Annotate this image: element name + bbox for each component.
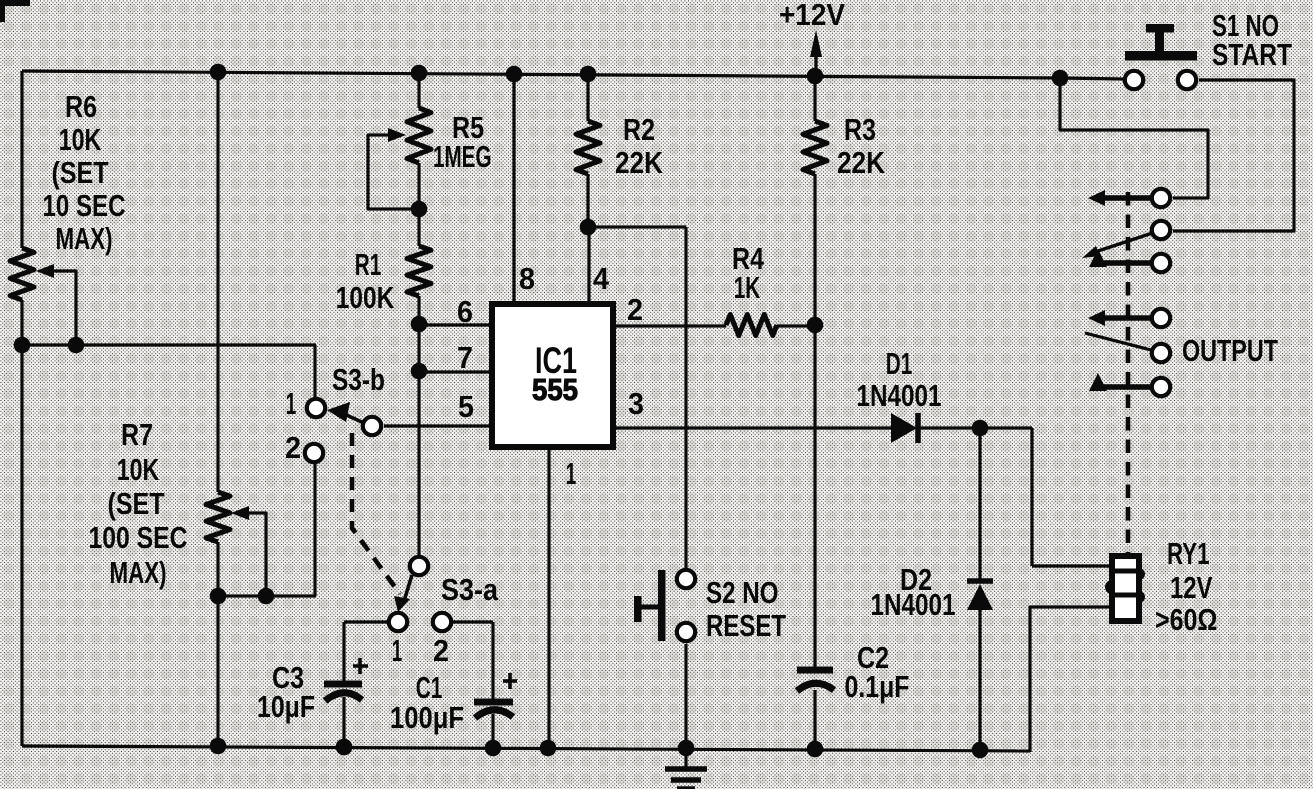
node pin6 junction bbox=[411, 316, 428, 333]
switch S3-b pole bbox=[363, 417, 381, 435]
svg-text:2: 2 bbox=[285, 430, 301, 465]
svg-text:5: 5 bbox=[458, 389, 474, 424]
relay contact row4 bbox=[1088, 309, 1170, 327]
node R6 wiper junction bbox=[68, 337, 85, 354]
label C1 bbox=[390, 670, 464, 735]
wire relay coil bottom return bbox=[1030, 607, 1112, 752]
label S3-b 1 bbox=[286, 386, 297, 421]
label S3-b bbox=[332, 362, 385, 397]
node pin1 ground bbox=[540, 740, 557, 757]
label R5 bbox=[433, 110, 492, 174]
svg-text:100K: 100K bbox=[336, 280, 395, 315]
wire left edge column bbox=[20, 71, 23, 746]
label S3-a 2 bbox=[433, 633, 449, 668]
node R7 bottom junction bbox=[210, 588, 227, 605]
node C2 ground bbox=[807, 741, 824, 758]
svg-text:RY1: RY1 bbox=[1167, 536, 1210, 571]
node pin7 junction bbox=[411, 363, 428, 380]
svg-text:S3-b: S3-b bbox=[332, 362, 385, 397]
svg-text:1: 1 bbox=[566, 456, 577, 491]
wire pin 6 bbox=[419, 323, 492, 326]
switch S1 contact left bbox=[1125, 71, 1143, 89]
label S3-b 2 bbox=[285, 430, 301, 465]
label S3-a bbox=[441, 572, 499, 607]
wire pin 3 bbox=[613, 426, 980, 429]
label D2 bbox=[871, 562, 956, 622]
diode D1 1N4001 bbox=[891, 413, 918, 443]
switch S2 contact bottom bbox=[677, 623, 695, 641]
svg-text:START: START bbox=[1212, 37, 1292, 72]
wire D2 column bbox=[978, 428, 981, 750]
svg-text:22K: 22K bbox=[615, 145, 664, 180]
svg-text:4: 4 bbox=[593, 261, 610, 296]
label pin 6 bbox=[457, 294, 473, 329]
svg-text:(SET: (SET bbox=[52, 155, 109, 190]
power +12V bbox=[779, 0, 845, 77]
node S2 ground junction bbox=[678, 740, 695, 757]
label pin 1 bbox=[566, 456, 577, 491]
label 555 bbox=[532, 372, 578, 407]
resistor R2 22K bbox=[576, 121, 600, 174]
svg-text:100μF: 100μF bbox=[390, 700, 464, 735]
R7 wiper arrow bbox=[231, 506, 266, 596]
R6 wiper arrow bbox=[36, 264, 76, 345]
svg-text:0.1μF: 0.1μF bbox=[845, 669, 910, 704]
node R5 wiper junction bbox=[411, 201, 428, 218]
switch S1 contact right bbox=[1178, 71, 1196, 89]
switch S2 pushbutton bbox=[634, 570, 666, 641]
svg-text:R2: R2 bbox=[623, 112, 655, 147]
node top rail R5 tap bbox=[411, 65, 428, 82]
label S1 bbox=[1212, 8, 1292, 72]
svg-text:D1: D1 bbox=[886, 346, 913, 381]
op-amp/timer IC1 555 body bbox=[492, 304, 613, 447]
label C3 bbox=[257, 660, 315, 724]
switch S3-a contact 2 bbox=[433, 613, 451, 631]
node D2 ground bbox=[972, 742, 989, 759]
relay RY1 coil bbox=[1105, 556, 1145, 621]
svg-text:1K: 1K bbox=[734, 270, 761, 305]
svg-text:1N4001: 1N4001 bbox=[857, 378, 942, 413]
node R6 bottom junction bbox=[14, 337, 31, 354]
label pin 8 bbox=[519, 261, 535, 296]
switch S1 pushbutton bbox=[1125, 24, 1197, 61]
resistor R1 100K bbox=[407, 246, 431, 296]
svg-text:R1: R1 bbox=[355, 247, 382, 282]
wire pin 4 bbox=[587, 227, 590, 302]
switch S3-b contact 2 bbox=[305, 444, 323, 462]
resistor R6 (potentiometer) bbox=[10, 248, 34, 300]
wire pin 8 bbox=[512, 74, 515, 302]
top-left scan mark bbox=[0, 0, 30, 22]
label OUTPUT bbox=[1182, 333, 1278, 368]
label RY1 bbox=[1155, 536, 1218, 637]
svg-text:S3-a: S3-a bbox=[441, 572, 499, 607]
wire S2 to ground rail bbox=[684, 644, 687, 748]
S3-a lever arrow bbox=[394, 575, 412, 612]
switch S2 contact top bbox=[677, 570, 695, 588]
svg-text:(SET: (SET bbox=[108, 486, 165, 521]
svg-text:R3: R3 bbox=[844, 112, 876, 147]
svg-text:7: 7 bbox=[457, 340, 473, 375]
svg-text:1N4001: 1N4001 bbox=[871, 587, 956, 622]
svg-text:10μF: 10μF bbox=[257, 689, 315, 724]
relay contact row6 bbox=[1089, 373, 1170, 396]
wire R5-R1 column bbox=[417, 73, 420, 555]
wire S3-a c1 to C3 bbox=[344, 622, 387, 681]
wire bottom ground rail bbox=[22, 746, 1030, 751]
svg-text:10K: 10K bbox=[59, 122, 102, 157]
wire R7 to S3-b contact 2 bbox=[218, 463, 316, 596]
node +12V rail tap bbox=[807, 68, 824, 85]
label R1 bbox=[336, 247, 395, 315]
resistor R5 (potentiometer) 1MEG bbox=[407, 108, 431, 163]
label S2 bbox=[706, 575, 786, 643]
relay armature row2 bbox=[1082, 221, 1170, 258]
svg-text:OUTPUT: OUTPUT bbox=[1182, 333, 1278, 368]
label R2 bbox=[615, 112, 664, 180]
switch S3-a contact 1 bbox=[389, 613, 407, 631]
svg-text:>60Ω: >60Ω bbox=[1155, 602, 1218, 637]
wire S3-a c2 to C1 bbox=[453, 622, 493, 699]
switch S3-b contact 1 bbox=[307, 399, 325, 417]
node C3 ground bbox=[336, 739, 353, 756]
R5 wiper arrow bbox=[368, 128, 419, 209]
label D1 bbox=[857, 346, 942, 413]
node R2 rail tap bbox=[580, 66, 597, 83]
svg-text:10K: 10K bbox=[117, 452, 160, 487]
svg-text:12V: 12V bbox=[1170, 570, 1213, 605]
wire D1 junction to relay coil top bbox=[980, 428, 1112, 566]
wire pin 5 from S3-b pole bbox=[384, 424, 492, 427]
capacitor C1 100uF bbox=[474, 702, 513, 748]
svg-text:6: 6 bbox=[457, 294, 473, 329]
node bottom rail C3/R7 taps bbox=[210, 738, 353, 756]
C1 plus bbox=[503, 673, 517, 689]
wire S1 to relay NO contact bbox=[1173, 80, 1294, 231]
label R6 value bbox=[43, 89, 126, 256]
wire pin 7 bbox=[419, 370, 492, 373]
node pin8 rail tap bbox=[506, 66, 523, 83]
label R7 value bbox=[89, 417, 188, 590]
node C1 ground bbox=[485, 740, 502, 757]
svg-text:1: 1 bbox=[392, 633, 403, 668]
wire pin 1 bbox=[547, 450, 550, 748]
node D1 cathode junction bbox=[972, 420, 989, 437]
resistor R3 22K bbox=[803, 121, 827, 174]
S3 mechanical link (dashed) bbox=[352, 433, 400, 594]
resistor R4 1K bbox=[726, 315, 777, 336]
svg-text:10 SEC: 10 SEC bbox=[43, 188, 126, 223]
svg-text:RESET: RESET bbox=[706, 608, 786, 643]
label IC1 bbox=[535, 340, 577, 381]
C3 plus bbox=[353, 658, 368, 674]
svg-text:3: 3 bbox=[628, 386, 644, 421]
svg-text:1: 1 bbox=[286, 386, 297, 421]
relay mechanical linkage (dashed) bbox=[1126, 192, 1131, 554]
ground bbox=[665, 748, 707, 789]
node top rail R7 tap bbox=[210, 64, 227, 81]
node R2 bottom junction bbox=[580, 219, 597, 236]
capacitor C2 0.1uF bbox=[797, 670, 834, 691]
resistor R7 (potentiometer) bbox=[206, 492, 230, 542]
svg-text:8: 8 bbox=[519, 261, 535, 296]
node S1 rail junction bbox=[1052, 70, 1069, 87]
label S3-a 1 bbox=[392, 633, 403, 668]
svg-text:MAX): MAX) bbox=[110, 555, 167, 590]
svg-text:100 SEC: 100 SEC bbox=[89, 520, 188, 555]
svg-text:R6: R6 bbox=[65, 89, 97, 124]
wire R2 column bbox=[586, 74, 589, 227]
wire R2 junction to S2 bbox=[588, 227, 686, 568]
diode D2 1N4001 bbox=[967, 581, 993, 610]
wire R3 column bbox=[813, 76, 816, 749]
capacitor C3 10uF bbox=[324, 684, 362, 747]
label pin 4 bbox=[593, 261, 610, 296]
relay contact row3 bbox=[1089, 249, 1170, 272]
label pin 2 bbox=[627, 292, 643, 327]
svg-text:2: 2 bbox=[627, 292, 643, 327]
label pin 3 bbox=[628, 386, 644, 421]
svg-text:+12V: +12V bbox=[779, 0, 845, 32]
label C2 bbox=[845, 640, 910, 704]
wire R7 column bbox=[216, 72, 219, 746]
relay armature row5 bbox=[1085, 333, 1170, 362]
label R3 bbox=[837, 112, 886, 180]
node R7 wiper junction bbox=[258, 588, 275, 605]
svg-text:22K: 22K bbox=[837, 145, 886, 180]
node R4 to R3 junction bbox=[807, 317, 824, 334]
wire top supply rail bbox=[22, 71, 1123, 79]
label pin 7 bbox=[457, 340, 473, 375]
label pin 5 bbox=[458, 389, 474, 424]
label R4 bbox=[732, 241, 765, 305]
wire rail to relay armature bbox=[1060, 78, 1208, 198]
svg-text:555: 555 bbox=[532, 372, 578, 407]
svg-text:1MEG: 1MEG bbox=[433, 139, 492, 174]
relay contact row1 bbox=[1088, 189, 1170, 207]
wire pin 2 bbox=[613, 324, 816, 327]
switch S3-a pole bbox=[410, 557, 428, 575]
svg-text:MAX): MAX) bbox=[56, 221, 113, 256]
svg-text:S2 NO: S2 NO bbox=[706, 575, 779, 610]
svg-text:R7: R7 bbox=[121, 417, 153, 452]
svg-text:2: 2 bbox=[433, 633, 449, 668]
S3-b lever arrow bbox=[327, 402, 364, 423]
wire timing select row bbox=[22, 345, 316, 397]
